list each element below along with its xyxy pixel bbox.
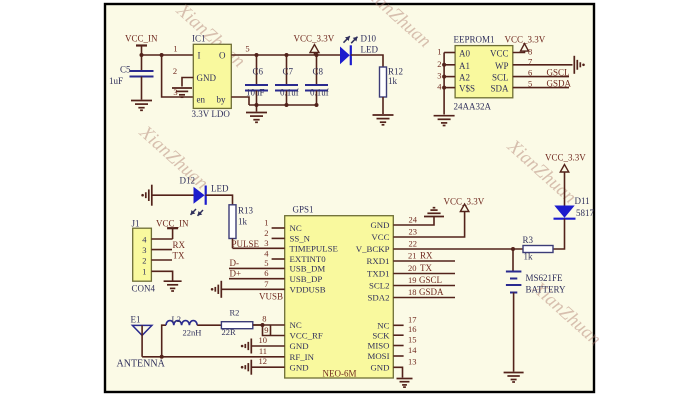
svg-text:1k: 1k: [238, 217, 248, 227]
svg-text:BATTERY: BATTERY: [526, 285, 567, 295]
LED D12: [180, 176, 229, 216]
svg-text:GPS1: GPS1: [293, 205, 314, 215]
svg-text:3: 3: [437, 71, 441, 81]
svg-text:0.1uf: 0.1uf: [310, 88, 329, 98]
svg-text:GND: GND: [290, 341, 309, 351]
node junction: [255, 53, 319, 57]
pin 6: [528, 67, 532, 77]
wire: [513, 87, 569, 89]
wire: [231, 97, 316, 105]
wire: [232, 239, 234, 249]
svg-text:22: 22: [409, 239, 418, 249]
wire: [256, 105, 258, 112]
node junction: [261, 323, 265, 327]
svg-text:3: 3: [173, 87, 177, 97]
svg-text:A1: A1: [459, 61, 470, 71]
svg-text:VCC_3.3V: VCC_3.3V: [545, 153, 586, 163]
svg-text:V_BCKP: V_BCKP: [356, 244, 390, 254]
svg-text:5: 5: [528, 78, 532, 88]
pin 18: [393, 287, 455, 298]
wire: [233, 247, 285, 249]
svg-text:E1: E1: [131, 315, 141, 325]
wire: [444, 53, 455, 115]
svg-text:17: 17: [408, 314, 417, 324]
wire: [142, 356, 285, 358]
svg-text:1k: 1k: [388, 76, 398, 86]
pin 7: [264, 279, 268, 289]
resistor R12: [380, 67, 404, 98]
net label PULSE: [232, 239, 260, 249]
inductor L2: [166, 314, 201, 338]
svg-text:NC: NC: [377, 321, 389, 331]
earth ground: [241, 339, 252, 354]
svg-text:9: 9: [264, 325, 268, 335]
svg-text:I: I: [198, 51, 201, 61]
pin 3: [173, 87, 177, 97]
LED D10: [340, 34, 378, 66]
svg-text:GSCL: GSCL: [547, 67, 570, 77]
pin 4: [264, 249, 284, 260]
pin 10: [252, 335, 285, 346]
svg-text:R13: R13: [238, 206, 254, 216]
ground: [172, 88, 192, 97]
svg-text:10: 10: [259, 335, 268, 345]
svg-text:SS_N: SS_N: [290, 234, 311, 244]
op-amp U? regulator IC1 box: [192, 34, 232, 120]
svg-text:19: 19: [408, 275, 417, 285]
pin 9: [263, 325, 285, 336]
net label D-: [229, 258, 285, 268]
connector J1 box: [132, 219, 156, 294]
pin 6: [264, 268, 268, 278]
svg-text:TX: TX: [173, 250, 185, 260]
svg-text:A0: A0: [459, 49, 470, 59]
svg-text:LED: LED: [211, 184, 229, 194]
ground: [246, 113, 267, 123]
node junction: [442, 63, 446, 90]
pin 15: [393, 335, 416, 346]
wire: [231, 54, 340, 56]
wire: [142, 54, 194, 56]
pin 21: [393, 251, 455, 262]
svg-text:C6: C6: [253, 67, 264, 77]
svg-text:WP: WP: [495, 61, 509, 71]
pin 5: [528, 78, 532, 88]
pin 5: [264, 258, 268, 268]
svg-text:SDA: SDA: [490, 84, 509, 94]
svg-text:14: 14: [408, 345, 417, 355]
wire: [553, 219, 565, 249]
pin 2: [264, 228, 284, 239]
svg-text:GND: GND: [370, 363, 389, 373]
pin 2: [437, 59, 441, 69]
svg-text:LED: LED: [361, 45, 379, 55]
net label VUSB: [259, 292, 283, 302]
svg-text:1uF: 1uF: [109, 76, 123, 86]
svg-text:by: by: [217, 95, 227, 105]
svg-text:24AA32A: 24AA32A: [454, 102, 492, 112]
svg-text:RF_IN: RF_IN: [290, 352, 315, 362]
pin 22: [393, 239, 523, 250]
svg-text:3: 3: [264, 238, 268, 248]
pin 23: [393, 212, 464, 238]
svg-text:SDA2: SDA2: [368, 293, 390, 303]
svg-text:GND: GND: [370, 220, 389, 230]
resistor R3: [523, 235, 554, 262]
svg-text:VCC: VCC: [490, 49, 509, 59]
svg-text:VCC_IN: VCC_IN: [125, 34, 158, 44]
svg-text:18: 18: [408, 287, 417, 297]
svg-text:1k: 1k: [524, 252, 534, 262]
battery MS621FE: [506, 249, 566, 295]
net label RX: [173, 240, 186, 250]
svg-text:R2: R2: [230, 308, 240, 318]
svg-text:USB_DP: USB_DP: [290, 274, 323, 284]
svg-text:12: 12: [259, 356, 268, 366]
node junction: [511, 247, 515, 251]
svg-text:2: 2: [437, 59, 441, 69]
wire: [351, 55, 383, 67]
svg-text:en: en: [197, 95, 206, 105]
svg-text:22nH: 22nH: [183, 328, 202, 338]
svg-text:TX: TX: [420, 263, 432, 273]
svg-text:MS621FE: MS621FE: [526, 273, 564, 283]
svg-text:D+: D+: [230, 269, 242, 279]
pin 5: [245, 44, 249, 54]
node junction: [160, 355, 164, 359]
power port VCC_3.3V: [545, 153, 586, 206]
svg-text:D10: D10: [361, 34, 377, 44]
ground: [131, 101, 152, 111]
resistor R2: [221, 308, 252, 337]
ground: [397, 379, 413, 388]
svg-text:SCL: SCL: [492, 73, 509, 83]
svg-text:GSDA: GSDA: [547, 78, 572, 88]
earth ground: [141, 185, 152, 206]
svg-text:RXD1: RXD1: [367, 256, 390, 266]
pin 8: [528, 47, 532, 57]
wire: [513, 293, 515, 372]
gps module GPS1 box: [285, 205, 394, 379]
svg-text:VDDUSB: VDDUSB: [290, 285, 326, 295]
svg-text:2: 2: [264, 228, 268, 238]
svg-text:RX: RX: [173, 240, 186, 250]
svg-text:V$S: V$S: [459, 84, 475, 94]
svg-text:SCK: SCK: [372, 330, 390, 340]
svg-text:SCL2: SCL2: [369, 281, 390, 291]
capacitor C6: [245, 55, 268, 105]
svg-text:VCC_3.3V: VCC_3.3V: [294, 34, 335, 44]
pin 12: [252, 356, 285, 367]
svg-text:GSDA: GSDA: [419, 287, 444, 297]
svg-text:D-: D-: [230, 258, 240, 268]
svg-text:VUSB: VUSB: [259, 292, 283, 302]
capacitor C5: [109, 55, 154, 100]
svg-text:GSCL: GSCL: [419, 275, 442, 285]
svg-text:NC: NC: [290, 320, 302, 330]
power port VCC_3.3V: [444, 197, 485, 212]
svg-text:CON4: CON4: [132, 284, 156, 294]
wire: [253, 324, 263, 326]
svg-text:1: 1: [173, 44, 177, 54]
svg-text:VCC_IN: VCC_IN: [156, 219, 189, 229]
svg-text:11: 11: [259, 346, 267, 356]
pin 3: [264, 238, 268, 248]
svg-text:0.1uf: 0.1uf: [280, 88, 299, 98]
svg-text:NC: NC: [290, 223, 302, 233]
svg-text:IC1: IC1: [192, 34, 206, 44]
antenna E1: [117, 315, 166, 370]
svg-text:USB_DM: USB_DM: [290, 264, 326, 274]
svg-text:3: 3: [142, 245, 146, 255]
ground: [434, 116, 455, 126]
svg-text:20: 20: [408, 263, 417, 273]
svg-text:22R: 22R: [222, 327, 237, 337]
capacitor C7: [275, 55, 299, 105]
svg-text:1: 1: [142, 267, 146, 277]
wire: [513, 76, 569, 78]
pin 14: [393, 345, 417, 356]
svg-text:13: 13: [408, 356, 417, 366]
svg-text:24: 24: [409, 215, 418, 225]
svg-text:3.3V LDO: 3.3V LDO: [192, 109, 231, 119]
wire: [513, 64, 573, 66]
wire: [197, 324, 221, 326]
svg-text:23: 23: [409, 227, 418, 237]
net label D+: [229, 269, 285, 279]
svg-text:7: 7: [528, 57, 532, 67]
svg-text:2: 2: [142, 256, 146, 266]
svg-text:VCC_3.3V: VCC_3.3V: [505, 35, 546, 45]
svg-text:GND: GND: [197, 73, 217, 83]
svg-text:16: 16: [408, 324, 417, 334]
pin 7: [528, 57, 532, 67]
power port VCC_IN: [156, 219, 189, 240]
svg-text:D12: D12: [180, 176, 196, 186]
net label GSDA: [547, 78, 572, 88]
pin 1: [437, 47, 441, 57]
wire: [162, 325, 166, 357]
diode D11: [554, 196, 595, 219]
svg-text:5: 5: [264, 258, 268, 268]
net label TX: [173, 250, 185, 260]
svg-text:8: 8: [262, 314, 266, 324]
svg-text:EEPROM1: EEPROM1: [454, 35, 495, 45]
svg-text:2: 2: [173, 66, 177, 76]
power port VCC_3.3V: [505, 35, 546, 53]
pin 19: [393, 275, 455, 286]
svg-text:6: 6: [528, 67, 532, 77]
svg-text:R3: R3: [523, 235, 534, 245]
svg-text:C8: C8: [313, 67, 324, 77]
pin 24: [393, 215, 434, 226]
pin 11: [259, 346, 267, 356]
power port VCC_IN: [125, 34, 158, 56]
svg-text:5817: 5817: [576, 208, 595, 218]
svg-text:1: 1: [437, 47, 441, 57]
svg-text:ANTENNA: ANTENNA: [117, 359, 166, 370]
svg-text:J1: J1: [132, 219, 140, 229]
svg-text:A2: A2: [459, 73, 470, 83]
pin 4: [142, 235, 172, 245]
svg-text:R12: R12: [388, 67, 403, 77]
svg-text:RX: RX: [420, 251, 433, 261]
pin 16: [393, 324, 416, 335]
svg-text:MISO: MISO: [368, 341, 390, 351]
pin 1: [264, 218, 284, 229]
wire: [222, 288, 285, 290]
svg-text:1: 1: [264, 218, 268, 228]
pin 1: [142, 267, 172, 281]
pin 2: [173, 66, 193, 87]
eeprom EEPROM1 box: [454, 35, 513, 112]
svg-text:TXD1: TXD1: [367, 269, 389, 279]
node junction: [140, 53, 164, 57]
pin 3: [142, 245, 172, 255]
svg-text:VCC: VCC: [371, 232, 389, 242]
node junction: [255, 103, 319, 107]
earth ground: [211, 281, 222, 298]
pin 17: [393, 314, 416, 325]
ground: [504, 373, 524, 383]
pin 8: [253, 314, 285, 326]
pin 3: [437, 71, 441, 81]
svg-text:VCC_RF: VCC_RF: [290, 331, 323, 341]
resistor R13: [229, 205, 254, 239]
svg-text:15: 15: [408, 335, 417, 345]
svg-text:MOSI: MOSI: [368, 351, 390, 361]
ground: [373, 115, 394, 125]
earth ground: [574, 56, 585, 74]
svg-text:NEO-6M: NEO-6M: [323, 369, 357, 379]
earth ground: [241, 360, 252, 375]
power port VCC_3.3V: [294, 34, 335, 56]
capacitor C8: [305, 55, 329, 105]
pin 13: [393, 356, 416, 377]
svg-text:D11: D11: [575, 196, 590, 206]
pin 1: [173, 44, 177, 54]
svg-text:TIMEPULSE: TIMEPULSE: [290, 244, 338, 254]
ground: [164, 281, 182, 291]
ground: [424, 208, 444, 217]
svg-text:10uF: 10uF: [246, 88, 265, 98]
wire: [382, 97, 384, 114]
svg-text:21: 21: [408, 251, 417, 261]
svg-text:6: 6: [264, 268, 268, 278]
net label GSCL: [547, 67, 570, 77]
svg-text:O: O: [219, 51, 226, 61]
svg-text:8: 8: [528, 47, 532, 57]
wire: [162, 55, 194, 97]
svg-text:GND: GND: [290, 362, 309, 372]
pin 20: [393, 263, 455, 274]
svg-text:C5: C5: [120, 65, 131, 75]
wire: [152, 194, 194, 196]
svg-text:7: 7: [264, 279, 268, 289]
pin 2: [142, 256, 172, 266]
svg-text:C7: C7: [283, 67, 294, 77]
pin 4: [437, 82, 442, 92]
svg-text:L2: L2: [172, 314, 181, 324]
gps pin names: [290, 220, 391, 372]
svg-text:5: 5: [245, 44, 249, 54]
wire: [206, 195, 233, 205]
